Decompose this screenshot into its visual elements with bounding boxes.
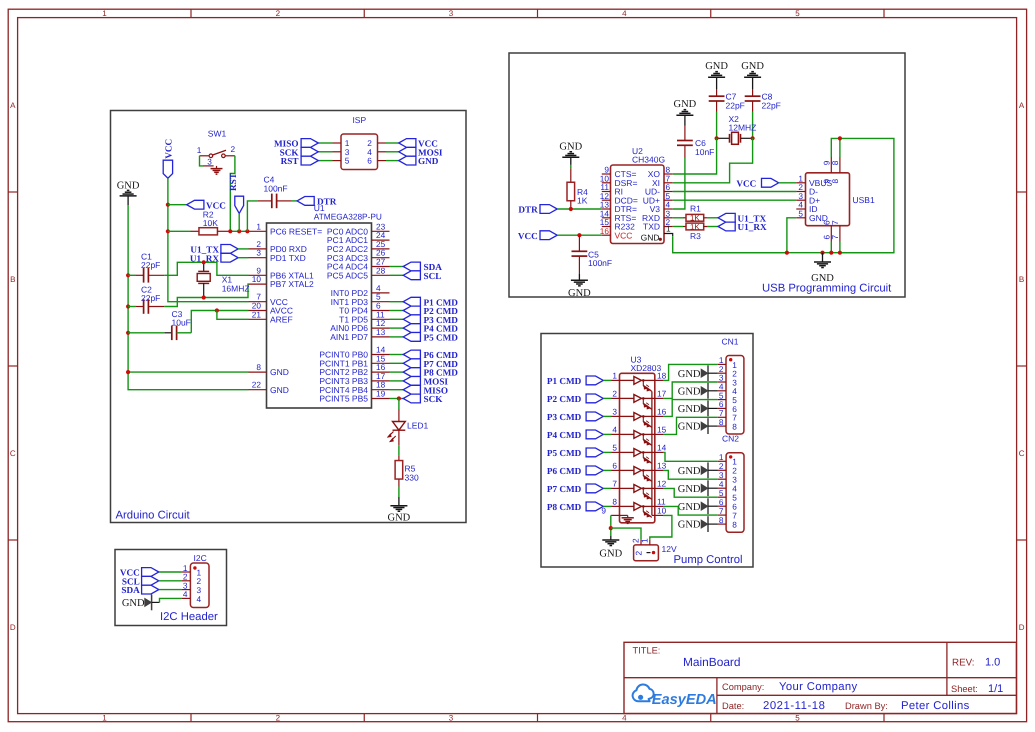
wire RST to ISP [318, 160, 332, 162]
junction VCC-C5 [577, 233, 581, 237]
junction GND-C1 [126, 273, 130, 277]
svg-text:R3: R3 [690, 231, 701, 241]
svg-text:5: 5 [795, 714, 800, 723]
wire C1 to XTAL1 [164, 262, 248, 275]
wire U3 pin10 to 12V [650, 515, 672, 540]
Arduino Circuit section box [111, 111, 467, 523]
connector ISP [333, 115, 387, 170]
svg-text:GND: GND [418, 156, 439, 166]
svg-text:1.0: 1.0 [985, 657, 1000, 669]
svg-text:8: 8 [732, 422, 737, 432]
svg-text:EasyEDA: EasyEDA [652, 692, 717, 708]
svg-text:GND: GND [741, 61, 764, 72]
wire U2 pin1 GND [664, 234, 673, 237]
wire P7 CMD to U3 [603, 487, 611, 489]
capacitor C5 100nF [572, 235, 613, 274]
wire DTR to U2 pin13 [557, 208, 602, 210]
svg-text:10nF: 10nF [695, 147, 714, 157]
wire XO to C7 [673, 138, 717, 174]
I2C Header section box [115, 550, 227, 626]
svg-text:5: 5 [795, 9, 800, 18]
svg-text:GND: GND [270, 385, 289, 395]
node P3 CMD [403, 315, 458, 325]
node P4 CMD flag [547, 430, 603, 440]
svg-text:4: 4 [612, 425, 617, 435]
wire VCC rail [168, 178, 249, 302]
resistor R5 330 [395, 455, 419, 486]
wire USB1 top pin8 [839, 138, 841, 157]
node P1 CMD [403, 297, 458, 307]
wire GND to CN2 [708, 469, 718, 471]
svg-text:1: 1 [102, 714, 107, 723]
svg-text:GND: GND [705, 61, 728, 72]
svg-text:12MHZ: 12MHZ [729, 123, 757, 133]
svg-text:28: 28 [376, 265, 386, 275]
svg-text:7: 7 [830, 220, 840, 225]
wire pin 4 to net SDA [390, 266, 404, 268]
wire SCL to I2C [159, 580, 182, 582]
svg-text:21: 21 [252, 309, 262, 319]
svg-text:Your Company: Your Company [779, 681, 858, 693]
svg-text:MainBoard: MainBoard [683, 655, 741, 669]
wire USB1 shield top loop [831, 138, 894, 252]
ground GND above R4 [559, 141, 582, 165]
wire AVCC to AREF [217, 311, 249, 320]
node GND [399, 156, 439, 166]
wire reset net [230, 230, 248, 232]
node VCC flag [120, 568, 159, 578]
svg-text:C: C [10, 449, 16, 458]
svg-text:100nF: 100nF [588, 258, 612, 268]
svg-text:8: 8 [732, 520, 737, 530]
resistor R3 1K [673, 222, 707, 241]
junction X2 right [751, 136, 755, 140]
svg-text:B: B [1019, 275, 1024, 284]
svg-text:10uF: 10uF [172, 318, 191, 328]
junction GND-C2 [126, 304, 130, 308]
svg-text:I2C Header: I2C Header [160, 611, 218, 623]
wire P8 CMD to U3 [603, 505, 611, 507]
svg-text:16MHZ: 16MHZ [222, 283, 250, 293]
svg-text:12V: 12V [662, 544, 677, 554]
wire VCC to USB1 pin1 [779, 182, 797, 184]
crystal X2 12MHZ [717, 114, 757, 144]
junction pin19 SCK [397, 396, 401, 400]
svg-text:SCL: SCL [424, 271, 442, 281]
svg-text:GND: GND [122, 598, 145, 609]
wire P2 CMD to U3 [603, 397, 611, 399]
svg-text:22: 22 [252, 380, 262, 390]
svg-text:12: 12 [657, 479, 667, 489]
node SCK [403, 394, 443, 404]
svg-text:U1_RX: U1_RX [738, 222, 767, 232]
wire pin 14 to net P6 CMD [390, 354, 404, 356]
wire U3 pin15 to CN1 pin7 [663, 417, 718, 434]
svg-text:2: 2 [276, 9, 281, 18]
resistor R2 10K [191, 209, 231, 235]
wire GND to CN2 [708, 505, 718, 507]
wire P4 CMD to U3 [603, 433, 611, 435]
svg-text:CN2: CN2 [722, 434, 739, 444]
connector 12V supply [631, 538, 677, 561]
svg-text:1: 1 [102, 9, 107, 18]
wire reset to C4 [247, 201, 257, 231]
wire U3 pin17 to CN1 pin3 [663, 382, 718, 398]
wire ISP to VCC [386, 142, 399, 144]
node DTR flag USB [518, 205, 557, 215]
wire pin 5 to net SCL [390, 274, 404, 276]
svg-text:SCK: SCK [424, 394, 444, 404]
node VCC [399, 139, 438, 149]
svg-text:VCC: VCC [518, 231, 538, 241]
svg-text:CH340G: CH340G [632, 155, 665, 165]
svg-text:13: 13 [376, 327, 386, 337]
switch SW1 [197, 129, 236, 175]
svg-text:2: 2 [612, 389, 617, 399]
junction reset-C4 [245, 229, 249, 233]
svg-text:6: 6 [612, 461, 617, 471]
ground GND above C7 [705, 61, 728, 89]
junction pump GND [609, 526, 613, 530]
ground GND pump [599, 536, 622, 560]
node P7 CMD [403, 359, 458, 369]
svg-text:REV:: REV: [952, 658, 975, 669]
wire C2 to XTAL2 [164, 284, 248, 306]
svg-text:P1 CMD: P1 CMD [547, 376, 582, 386]
wire SDA to I2C [159, 589, 182, 591]
svg-text:PC6 RESET=: PC6 RESET= [270, 226, 322, 236]
svg-text:4: 4 [622, 714, 627, 723]
wire R3 to U1_RX [707, 226, 718, 228]
svg-text:1: 1 [639, 538, 649, 543]
svg-text:17: 17 [657, 389, 667, 399]
wire U3 pin9 to GND [610, 515, 612, 536]
svg-text:16: 16 [657, 407, 667, 417]
svg-text:1: 1 [666, 224, 671, 234]
svg-text:GND: GND [270, 367, 289, 377]
svg-text:GND: GND [678, 369, 701, 380]
svg-text:3: 3 [449, 714, 454, 723]
wire VCC branch to flag [168, 204, 187, 206]
wire MISO to ISP [318, 142, 332, 144]
ground GND top-left [117, 180, 140, 205]
svg-text:8: 8 [719, 515, 724, 525]
svg-text:PC5 ADC5: PC5 ADC5 [327, 270, 368, 280]
svg-text:3: 3 [612, 407, 617, 417]
node SCL [403, 271, 441, 281]
svg-text:VCC: VCC [736, 178, 756, 188]
wire pin 19 to net SCK [390, 398, 404, 400]
svg-text:1: 1 [197, 145, 202, 155]
node P1 CMD flag [547, 376, 603, 386]
wire GND rail to pin22 [128, 372, 248, 390]
svg-text:19: 19 [376, 389, 386, 399]
svg-text:C: C [1019, 449, 1025, 458]
svg-text:AIN1 PD7: AIN1 PD7 [330, 332, 368, 342]
wire U3 pin16 to CN1 pin5 [663, 400, 718, 417]
node U1_TX flag [190, 245, 238, 255]
svg-text:P4 CMD: P4 CMD [547, 430, 582, 440]
svg-text:RST: RST [228, 173, 238, 191]
svg-text:Date:: Date: [722, 701, 744, 711]
svg-text:GND: GND [388, 513, 411, 524]
op-amp U2 CH340G [600, 146, 673, 243]
capacitor C4 100nF [258, 175, 291, 209]
svg-text:P5 CMD: P5 CMD [547, 448, 582, 458]
svg-text:5: 5 [345, 156, 350, 166]
svg-text:GND: GND [678, 466, 701, 477]
svg-text:2: 2 [276, 714, 281, 723]
wire USB GND rail [673, 252, 894, 254]
ground GND flag CN2 [678, 480, 708, 496]
wire GND to CN2 [708, 487, 718, 489]
wire GND to C3 [128, 332, 164, 334]
wire pump GND to 12V pin2 [611, 528, 641, 540]
ground GND below C5 [568, 274, 591, 299]
wire C3 to AVCC [191, 311, 248, 333]
svg-text:GND: GND [678, 422, 701, 433]
ground GND flag CN2 [678, 516, 708, 532]
svg-text:PB7 XTAL2: PB7 XTAL2 [270, 279, 314, 289]
node P2 CMD flag [547, 394, 603, 404]
svg-text:1K: 1K [690, 214, 700, 223]
svg-text:RST: RST [281, 156, 299, 166]
capacitor C3 10uF [164, 309, 191, 340]
svg-text:3: 3 [449, 9, 454, 18]
capacitor C7 22pF [709, 89, 745, 112]
resistor R4 1K [567, 168, 588, 209]
svg-text:GND: GND [568, 288, 591, 299]
ground GND flag CN2 [678, 498, 708, 514]
svg-text:1/1: 1/1 [988, 683, 1003, 695]
node MOSI [403, 377, 448, 387]
wire C6 to V3 [673, 158, 685, 209]
svg-text:22pF: 22pF [762, 100, 781, 110]
svg-text:Peter Collins: Peter Collins [901, 700, 970, 712]
node SCK [280, 147, 319, 157]
node P6 CMD [403, 350, 458, 360]
wire SW1 pin2 to reset net [230, 156, 235, 232]
svg-text:P6 CMD: P6 CMD [547, 466, 582, 476]
svg-text:1K: 1K [577, 196, 588, 206]
junction X2 left [715, 136, 719, 140]
op-amp U1 ATMEGA328P-PU [249, 203, 390, 408]
connector CN1 [718, 337, 744, 434]
svg-text:GND: GND [641, 233, 660, 243]
node VCC flag VBUS [736, 178, 778, 188]
wire pin 15 to net P7 CMD [390, 362, 404, 364]
svg-text:8: 8 [612, 497, 617, 507]
svg-text:SW1: SW1 [208, 129, 227, 139]
wire U1_TX to pin2 [238, 248, 248, 250]
junction VCC-flag [166, 203, 170, 207]
svg-text:A: A [10, 101, 16, 110]
wire C8 to X2 [752, 112, 754, 139]
wire U3 pin12 to CN2 pin5 [663, 488, 718, 497]
svg-text:ISP: ISP [352, 115, 366, 125]
EasyEDA logo [633, 684, 717, 707]
connector I2C [182, 553, 209, 607]
svg-text:8: 8 [256, 362, 261, 372]
wire R1 to U1_TX [707, 217, 718, 219]
svg-text:5: 5 [798, 208, 803, 218]
svg-text:GND: GND [559, 141, 582, 152]
svg-text:P5 CMD: P5 CMD [424, 333, 459, 343]
svg-text:Drawn By:: Drawn By: [845, 701, 888, 711]
svg-text:D: D [10, 623, 16, 632]
wire GND to C1 [128, 274, 136, 276]
svg-text:7: 7 [612, 479, 617, 489]
svg-text:1: 1 [612, 371, 617, 381]
svg-text:8: 8 [830, 160, 840, 165]
power flag VCC top [163, 139, 173, 178]
ground GND below USB1 [811, 253, 834, 284]
wire USB1 bottom pins to rail [830, 242, 832, 253]
wire U1_RX to pin3 [238, 257, 248, 259]
ground GND below R5 [388, 497, 411, 524]
capacitor C8 22pF [745, 89, 781, 112]
junction top shield [838, 136, 842, 140]
wire SW1 pin1 to pin3 [200, 156, 204, 166]
svg-text:4: 4 [197, 594, 202, 604]
junction rail earth [820, 251, 824, 255]
svg-text:2: 2 [634, 551, 644, 556]
wire pin 17 to net MOSI [390, 380, 404, 382]
ground GND flag I2C [122, 595, 160, 611]
svg-text:Company:: Company: [722, 682, 764, 692]
node DTR flag [297, 197, 337, 207]
ground GND above C6 [674, 99, 697, 126]
svg-text:P2 CMD: P2 CMD [547, 394, 582, 404]
svg-text:VCC: VCC [164, 139, 174, 159]
wire C7 to X2 [716, 112, 718, 139]
svg-text:PD1 TXD: PD1 TXD [270, 253, 306, 263]
junction rail p7 [838, 251, 842, 255]
svg-text:DTR: DTR [317, 197, 337, 207]
ground GND flag CN1 [678, 383, 708, 399]
connector CN2 [718, 434, 744, 533]
node RST [281, 156, 319, 166]
node P5 CMD flag [547, 448, 603, 458]
svg-text:P3 CMD: P3 CMD [547, 412, 582, 422]
ground GND flag CN1 [678, 401, 708, 417]
svg-text:USB Programming Circuit: USB Programming Circuit [762, 283, 892, 295]
wire UD+ to D+ [673, 199, 797, 201]
node P3 CMD flag [547, 412, 603, 422]
svg-text:LED1: LED1 [407, 421, 429, 431]
ground GND flag CN1 [678, 365, 708, 381]
wire R5 to GND [398, 487, 400, 498]
title block [624, 642, 1016, 713]
svg-text:GND: GND [678, 520, 701, 531]
wire GND rail [128, 205, 248, 372]
wire USB1 pin5 to rail [787, 218, 796, 253]
svg-text:P8 CMD: P8 CMD [547, 502, 582, 512]
svg-text:I2C: I2C [194, 553, 207, 563]
junction rail p6 [829, 251, 833, 255]
wire pin 9 to net P2 CMD [390, 310, 404, 312]
svg-text:3: 3 [256, 248, 261, 258]
svg-text:CN1: CN1 [722, 337, 739, 347]
svg-text:7: 7 [830, 235, 840, 240]
svg-text:P7 CMD: P7 CMD [547, 484, 582, 494]
wire GND to R4 [570, 165, 572, 169]
wire VCC to U2 pin16 [557, 234, 602, 236]
wire pin 11 to net P4 CMD [390, 327, 404, 329]
svg-text:10: 10 [252, 274, 262, 284]
svg-text:SDA: SDA [121, 585, 140, 595]
svg-text:TXD: TXD [643, 222, 660, 232]
op-amp U3 XD2803 [601, 354, 666, 523]
wire SCK to LED1 [398, 399, 400, 410]
wire RST to reset net [238, 213, 240, 231]
svg-text:2: 2 [230, 144, 235, 154]
svg-text:B: B [10, 275, 15, 284]
wire GND to CN1 [708, 407, 718, 409]
svg-text:16: 16 [600, 226, 610, 236]
node MISO [403, 385, 448, 395]
ground GND above C8 [741, 61, 764, 89]
ground GND flag CN2 [678, 462, 708, 478]
svg-text:14: 14 [657, 443, 667, 453]
svg-text:GND: GND [678, 484, 701, 495]
node P5 CMD [403, 333, 458, 343]
node SCL flag [122, 576, 159, 586]
node U1_TX flag USB [718, 213, 766, 223]
svg-text:4: 4 [183, 589, 188, 599]
node P6 CMD flag [547, 466, 603, 476]
svg-text:22pF: 22pF [726, 100, 745, 110]
svg-text:5: 5 [612, 443, 617, 453]
svg-text:TITLE:: TITLE: [633, 646, 661, 656]
wire U3 pin13 to CN2 pin3 [663, 470, 718, 479]
wire XI to C8 [673, 138, 753, 183]
wire ISP to GND [386, 160, 399, 162]
svg-text:AREF: AREF [270, 314, 293, 324]
capacitor C6 10nF [677, 126, 714, 159]
Pump Control section box [541, 334, 753, 568]
ground GND flag CN1 [678, 418, 708, 434]
svg-text:GND: GND [674, 99, 697, 110]
node P7 CMD flag [547, 484, 603, 494]
junction reset-RST [237, 229, 241, 233]
wire U3 pin11 to CN2 pin7 [663, 506, 718, 515]
node MOSI [399, 147, 443, 157]
svg-text:Pump Control: Pump Control [674, 554, 743, 566]
node SDA [403, 262, 442, 272]
node RST flag [228, 173, 244, 213]
junction X1 bottom [202, 295, 206, 299]
wire pin 18 to net MISO [390, 389, 404, 391]
wire P1 CMD to U3 [603, 379, 611, 381]
wire C4 to DTR [291, 200, 297, 202]
wire P5 CMD to U3 [603, 451, 611, 453]
crystal X1 16MHZ [197, 262, 249, 297]
wire pin 10 to net P3 CMD [390, 318, 404, 320]
LED LED1 [388, 409, 429, 445]
junction AVCC-AREF [215, 308, 219, 312]
wire GND to CN2 [708, 523, 718, 525]
wire VCC to I2C [159, 571, 182, 573]
node P2 CMD [403, 306, 458, 316]
resistor R1 1K [673, 204, 707, 223]
svg-text:Sheet:: Sheet: [951, 684, 978, 694]
junction reset-SW [228, 229, 232, 233]
node U1_RX flag [190, 253, 238, 263]
node P8 CMD flag [547, 502, 603, 512]
junction X1 top [202, 260, 206, 264]
svg-text:R1: R1 [690, 204, 701, 214]
